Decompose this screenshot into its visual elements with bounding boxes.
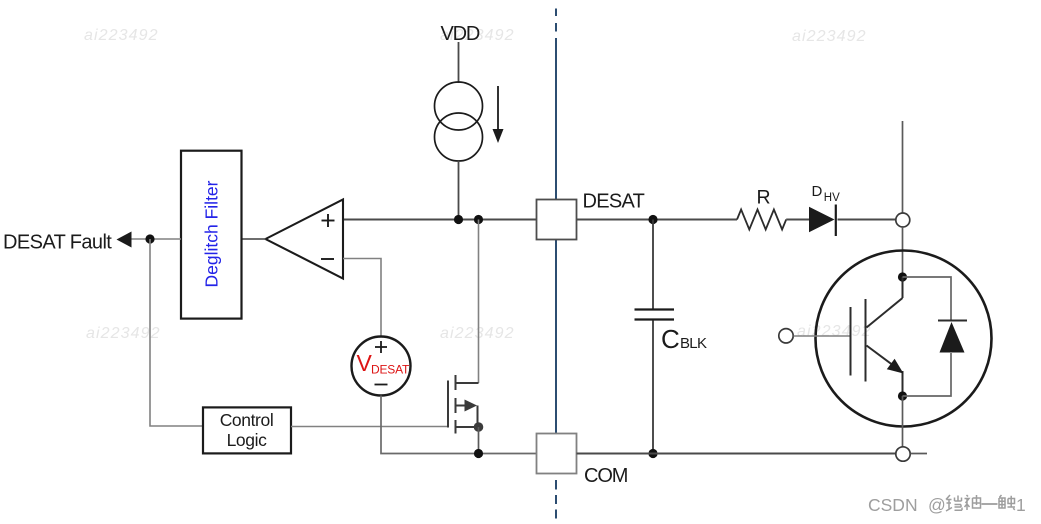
chip boundary dashed blue line: [555, 9, 557, 519]
wire collector top lead: [902, 121, 904, 213]
wire DESAT pin to external node: [577, 219, 738, 221]
IGBT outline circle: [816, 251, 992, 427]
wire current source to DESAT line: [458, 161, 460, 220]
wire comparator output to deglitch filter: [242, 238, 266, 240]
junction IGBT collector node: [898, 272, 907, 281]
pin DESAT: [537, 191, 645, 240]
current source (charge current): [435, 82, 483, 161]
junction source on COM rail: [474, 449, 483, 458]
wire MOSFET source to COM rail: [478, 427, 480, 454]
terminal collector (open circle): [896, 213, 910, 227]
svg-text:ai223492: ai223492: [797, 323, 872, 340]
transistor internal MOSFET: [448, 375, 479, 434]
diode DHV: [809, 183, 840, 236]
signal DESAT Fault arrowhead: [117, 232, 132, 248]
svg-text:C: C: [661, 324, 680, 354]
svg-text:1: 1: [1016, 495, 1026, 515]
svg-text:DESAT: DESAT: [583, 191, 645, 213]
wire control logic to MOSFET gate: [291, 426, 448, 428]
wire fault tee down to control logic: [150, 239, 203, 426]
junction IGBT emitter node: [898, 391, 907, 400]
wire MOSFET drain vertical: [478, 220, 480, 384]
MOSFET body arrow: [465, 400, 478, 412]
control logic block: [203, 407, 291, 453]
wire COM pin to emitter terminal: [577, 453, 896, 455]
svg-text:@: @: [928, 495, 946, 515]
svg-text:Control: Control: [220, 410, 274, 430]
wire emitter stub right: [911, 453, 928, 455]
wire DESAT sense line (comparator + input to DESAT pin): [343, 219, 537, 221]
junction CBLK bottom: [648, 449, 657, 458]
svg-text:HV: HV: [824, 192, 840, 204]
IGBT symbol: [851, 277, 903, 396]
svg-text:CSDN: CSDN: [868, 495, 918, 515]
svg-text:D: D: [812, 183, 823, 200]
wire VDD to current source: [458, 42, 460, 83]
wire comparator - input: [343, 259, 381, 337]
junction MOSFET source/body: [474, 422, 484, 432]
svg-text:R: R: [757, 187, 771, 209]
wire collector terminal into IGBT: [902, 227, 904, 277]
junction current source on DESAT line: [454, 215, 463, 224]
junction CBLK top: [648, 215, 657, 224]
svg-text:DESAT Fault: DESAT Fault: [3, 232, 112, 254]
svg-text:Logic: Logic: [227, 430, 267, 450]
svg-text:ai223492: ai223492: [440, 325, 515, 342]
pin COM: [537, 434, 628, 487]
antiparallel diode: [938, 321, 967, 353]
junction MOSFET drain tap on DESAT line: [474, 215, 483, 224]
resistor R: [737, 187, 786, 230]
svg-text:VDD: VDD: [441, 23, 480, 45]
svg-text:DESAT: DESAT: [371, 363, 410, 377]
svg-text:ai223492: ai223492: [792, 28, 867, 45]
terminal emitter (open circle): [896, 447, 910, 461]
voltage source VDESAT: [352, 337, 411, 396]
current direction arrow: [493, 86, 504, 143]
wire deglitch filter to fault arrow: [129, 238, 181, 240]
wire VDESAT bottom to COM rail: [381, 396, 537, 454]
svg-text:ai223492: ai223492: [84, 27, 159, 44]
IGBT emitter arrowhead: [887, 359, 904, 374]
terminal gate (open circle): [779, 329, 793, 343]
wire gate terminal to IGBT gate: [794, 335, 850, 337]
deglitch filter block: [181, 151, 242, 319]
comparator: [266, 200, 344, 279]
antiparallel diode branch: [903, 277, 952, 396]
wire diode to collector terminal: [838, 219, 896, 221]
svg-text:Deglitch Filter: Deglitch Filter: [202, 180, 222, 287]
svg-text:COM: COM: [584, 465, 628, 487]
wire IGBT emitter to bottom terminal: [902, 396, 904, 447]
wire resistor to diode: [786, 219, 810, 221]
capacitor CBLK: [635, 220, 707, 454]
junction fault line tee: [145, 234, 154, 243]
svg-text:BLK: BLK: [680, 335, 707, 352]
